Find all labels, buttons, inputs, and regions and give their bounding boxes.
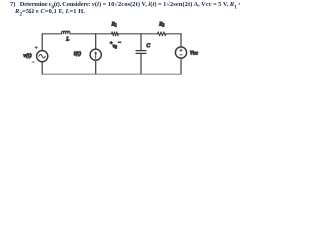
sine symbol (39, 55, 45, 58)
wire current source top (95, 34, 97, 49)
arrow inside current source (95, 52, 97, 58)
capacitor C plates (136, 50, 146, 52)
wire capacitor top lead (140, 34, 142, 51)
svg-text:L: L (65, 36, 69, 42)
wire top-left segment (42, 33, 61, 35)
source Vcc circle (175, 47, 186, 58)
bottom wire (42, 73, 181, 75)
wire R2 to right corner (166, 33, 181, 35)
wire below v(t) (41, 62, 43, 74)
minus inside Vcc (180, 54, 183, 56)
svg-text:i(t): i(t) (74, 50, 81, 57)
wire capacitor bottom lead (140, 53, 142, 74)
inductor L (62, 31, 70, 34)
wire inductor to R1 (70, 33, 112, 35)
svg-text:R2: R2 (158, 22, 164, 28)
plus sign at v(t) (35, 46, 37, 48)
svg-text:−: − (118, 40, 122, 46)
wire R1 to R2 (119, 33, 158, 35)
source v(t) circle (37, 51, 48, 62)
current source i(t) circle (90, 49, 101, 60)
minus sign at v(t) (32, 61, 34, 63)
svg-text:v0: v0 (113, 44, 117, 50)
wire below current source (95, 60, 97, 74)
resistor R2 (158, 32, 166, 36)
svg-text:v(t): v(t) (23, 52, 31, 59)
plus inside Vcc (180, 49, 183, 52)
svg-text:C: C (146, 43, 150, 49)
resistor R1 (112, 32, 119, 36)
svg-text:R1: R1 (111, 22, 117, 28)
wire right branch down (180, 34, 182, 47)
wire below Vcc (180, 58, 182, 74)
wire left branch down (41, 34, 43, 51)
svg-text:Vcc: Vcc (190, 50, 199, 56)
